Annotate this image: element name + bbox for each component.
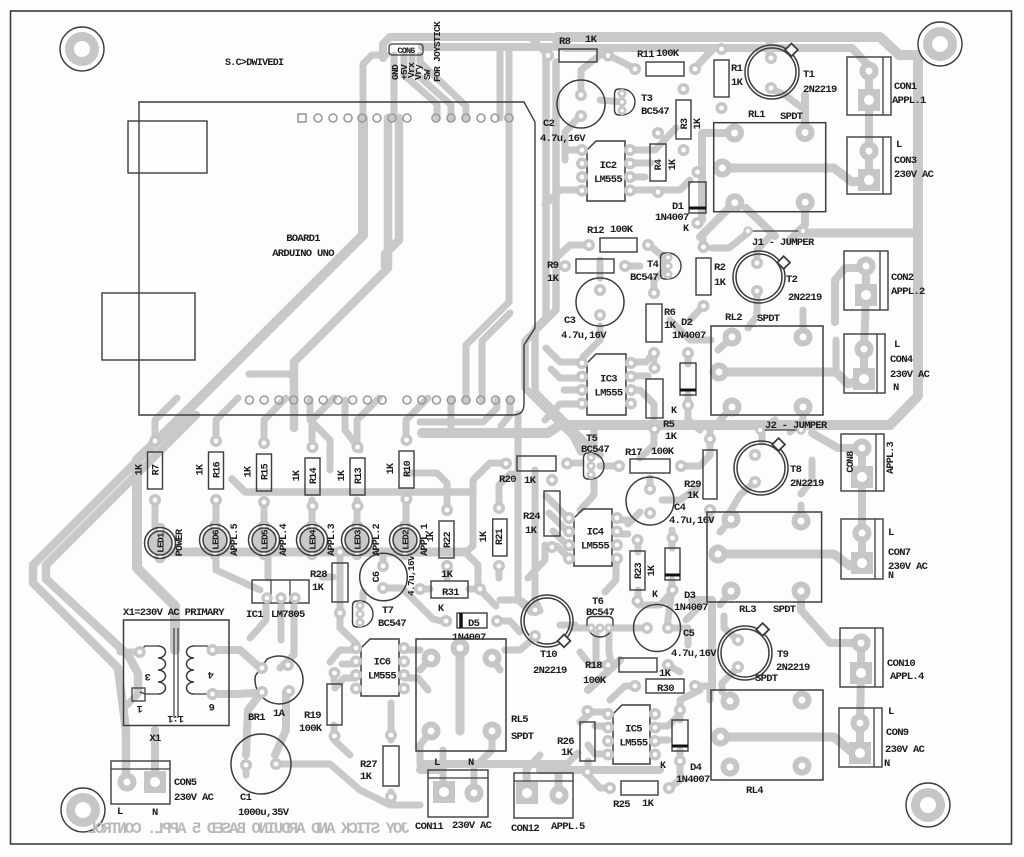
resistor R24 xyxy=(523,476,560,551)
capacitor C4 xyxy=(626,477,715,527)
wire xyxy=(730,482,755,512)
wire xyxy=(702,133,734,220)
transistor T5 xyxy=(581,433,609,479)
svg-text:LM555: LM555 xyxy=(594,174,622,186)
svg-text:1K: 1K xyxy=(668,159,679,170)
svg-text:R11: R11 xyxy=(637,49,654,61)
wire xyxy=(667,589,672,627)
wire xyxy=(700,203,734,237)
svg-text:R1: R1 xyxy=(731,63,743,75)
svg-text:1K: 1K xyxy=(524,475,537,487)
svg-text:C1: C1 xyxy=(240,792,252,804)
svg-text:R30: R30 xyxy=(657,683,674,695)
svg-text:APPL.3: APPL.3 xyxy=(327,523,338,556)
wire xyxy=(616,531,628,538)
wire xyxy=(388,703,395,740)
wire xyxy=(497,47,504,118)
wire xyxy=(500,600,535,610)
svg-text:BR1: BR1 xyxy=(248,712,265,724)
svg-text:APPL.2: APPL.2 xyxy=(372,523,383,556)
svg-text:CON8: CON8 xyxy=(846,451,857,473)
resistor R26 xyxy=(557,707,595,776)
wire xyxy=(858,477,866,533)
svg-text:T1: T1 xyxy=(803,69,815,81)
wire xyxy=(588,761,611,788)
svg-text:C5: C5 xyxy=(683,628,695,640)
svg-text:K: K xyxy=(683,224,689,235)
svg-text:1K: 1K xyxy=(561,747,574,759)
svg-text:R23: R23 xyxy=(634,562,645,579)
svg-text:BOARD1: BOARD1 xyxy=(286,233,320,245)
capacitor C3 xyxy=(561,278,624,342)
svg-text:230V AC: 230V AC xyxy=(894,169,935,181)
relay RL1 xyxy=(714,109,834,212)
svg-text:1K: 1K xyxy=(196,464,207,475)
svg-text:R22: R22 xyxy=(443,531,454,548)
bridge rectifier BR1 xyxy=(248,656,303,724)
wire xyxy=(278,599,285,640)
wire xyxy=(246,693,261,755)
regulator IC1 LM7805 xyxy=(246,580,309,621)
svg-text:4.7u,16V: 4.7u,16V xyxy=(561,330,607,342)
svg-text:CON11: CON11 xyxy=(415,821,443,833)
svg-text:2N2219: 2N2219 xyxy=(776,662,810,674)
LED LED1 xyxy=(145,525,187,562)
resistor R13 xyxy=(337,443,365,510)
svg-text:230V AC: 230V AC xyxy=(888,561,929,573)
svg-text:SPDT: SPDT xyxy=(780,111,803,123)
wire xyxy=(345,400,360,450)
wire xyxy=(556,263,565,270)
svg-text:IC4: IC4 xyxy=(587,527,604,539)
svg-text:IC3: IC3 xyxy=(600,374,617,386)
svg-text:N: N xyxy=(152,807,158,819)
wire xyxy=(383,37,869,71)
transistor T4 xyxy=(630,253,681,284)
svg-text:RL3: RL3 xyxy=(739,604,756,616)
wire xyxy=(403,500,410,527)
svg-text:L: L xyxy=(117,806,123,818)
wire xyxy=(160,548,465,557)
wire xyxy=(651,353,658,360)
wire xyxy=(312,398,334,441)
svg-text:4.7u,16V: 4.7u,16V xyxy=(669,515,715,527)
wire xyxy=(490,460,507,467)
svg-text:R24: R24 xyxy=(523,511,540,523)
wire xyxy=(524,772,531,793)
wire xyxy=(46,415,196,692)
svg-text:1K: 1K xyxy=(337,470,348,481)
svg-text:IC6: IC6 xyxy=(374,657,391,669)
wire xyxy=(363,55,386,118)
wire xyxy=(505,637,535,650)
svg-text:1K: 1K xyxy=(659,668,672,680)
resistor R14 xyxy=(292,443,320,510)
wire xyxy=(833,340,840,372)
wire xyxy=(385,118,399,266)
diode D5 xyxy=(438,604,501,644)
svg-text:APPL.1: APPL.1 xyxy=(892,95,926,107)
wire xyxy=(593,634,600,662)
svg-text:LM555: LM555 xyxy=(594,388,622,400)
wire xyxy=(555,770,562,795)
wire xyxy=(681,424,710,466)
wire xyxy=(380,552,387,566)
wire xyxy=(331,676,338,683)
LED LED3 xyxy=(342,522,384,559)
svg-text:CON7: CON7 xyxy=(888,547,911,559)
svg-text:T2: T2 xyxy=(786,274,798,286)
svg-text:C2: C2 xyxy=(543,118,555,130)
svg-text:L: L xyxy=(434,757,440,769)
wire xyxy=(668,628,688,645)
op-amp IC2 LM555 xyxy=(578,141,634,201)
svg-text:230V AC: 230V AC xyxy=(890,369,931,381)
wire xyxy=(801,460,812,494)
wire xyxy=(649,245,665,266)
svg-text:LED2: LED2 xyxy=(401,529,412,550)
wire xyxy=(801,95,809,133)
svg-text:JOY STICK AND ARDUINO BASED 5: JOY STICK AND ARDUINO BASED 5 APPL. CONT… xyxy=(88,820,410,838)
svg-text:ARDUINO UNO: ARDUINO UNO xyxy=(272,248,334,260)
resistor R28 xyxy=(310,548,348,617)
resistor R11 xyxy=(631,48,699,76)
svg-text:R27: R27 xyxy=(360,759,377,771)
svg-text:1K: 1K xyxy=(687,490,700,502)
wire xyxy=(528,545,545,578)
wire xyxy=(616,517,630,524)
wire xyxy=(801,591,861,643)
wire xyxy=(243,765,250,775)
diode D3 xyxy=(652,534,708,614)
wire xyxy=(357,398,379,441)
wire xyxy=(496,566,503,578)
wire xyxy=(583,326,600,357)
wire xyxy=(216,398,238,441)
wire xyxy=(525,62,581,452)
wire xyxy=(530,37,548,55)
wire xyxy=(629,174,645,181)
svg-text:100K: 100K xyxy=(656,48,680,60)
wire xyxy=(685,354,692,364)
svg-text:R2: R2 xyxy=(714,262,726,274)
wire xyxy=(580,652,610,665)
wire xyxy=(560,622,575,629)
wire xyxy=(669,580,676,592)
svg-text:1K: 1K xyxy=(135,464,146,475)
wire xyxy=(309,500,316,527)
wire xyxy=(654,270,665,294)
svg-text:J2 - JUMPER: J2 - JUMPER xyxy=(765,420,828,432)
resistor R6 xyxy=(646,289,677,357)
wire xyxy=(611,625,647,632)
resistor R9 xyxy=(547,259,629,285)
wire xyxy=(518,414,531,612)
svg-text:1: 1 xyxy=(137,702,143,714)
wire xyxy=(420,766,440,774)
svg-text:LED4: LED4 xyxy=(308,529,319,550)
connector CON11 xyxy=(415,757,493,833)
wire xyxy=(406,398,428,441)
wire xyxy=(559,753,578,793)
svg-text:BC547: BC547 xyxy=(586,607,614,619)
wire xyxy=(690,306,703,320)
resistor R21 xyxy=(479,504,507,570)
wire xyxy=(535,470,540,611)
svg-text:1K: 1K xyxy=(525,525,538,537)
wire xyxy=(724,616,738,640)
resistor R27 xyxy=(360,731,399,801)
wire xyxy=(722,168,869,182)
wire xyxy=(580,480,594,510)
wire xyxy=(565,115,581,160)
wire xyxy=(448,400,455,430)
svg-text:LED5: LED5 xyxy=(260,529,271,550)
svg-text:R19: R19 xyxy=(304,710,321,722)
wire xyxy=(275,692,286,755)
wire xyxy=(553,531,570,548)
svg-text:1K: 1K xyxy=(244,466,255,477)
resistor R20 xyxy=(499,456,571,487)
resistor R16 xyxy=(196,437,224,504)
capacitor C2 xyxy=(540,80,605,145)
svg-text:R8: R8 xyxy=(559,36,571,48)
transistor T3 xyxy=(615,89,670,118)
wire xyxy=(212,693,256,694)
wire xyxy=(334,725,350,755)
wire xyxy=(790,407,803,432)
wire xyxy=(565,147,583,154)
wire xyxy=(216,552,260,590)
svg-text:IC5: IC5 xyxy=(625,724,642,736)
resistor R29 xyxy=(684,435,717,514)
wire xyxy=(422,43,565,51)
svg-text:1K: 1K xyxy=(693,118,704,129)
svg-text:1:1: 1:1 xyxy=(167,712,184,723)
wire xyxy=(420,400,497,422)
wire xyxy=(265,552,272,578)
wire xyxy=(688,394,700,430)
svg-text:L: L xyxy=(888,527,894,539)
svg-text:1K: 1K xyxy=(585,34,598,46)
wire xyxy=(662,488,697,500)
svg-text:2N2219: 2N2219 xyxy=(788,292,822,304)
svg-text:LM7805: LM7805 xyxy=(271,609,305,621)
wire xyxy=(340,613,357,644)
wire xyxy=(628,373,648,380)
svg-text:POWER: POWER xyxy=(175,529,186,556)
svg-text:D3: D3 xyxy=(684,590,696,602)
wire xyxy=(656,737,668,744)
wire xyxy=(712,232,749,248)
wire xyxy=(625,263,640,270)
svg-text:CON10: CON10 xyxy=(887,658,915,670)
svg-text:CON4: CON4 xyxy=(890,354,913,366)
wire xyxy=(800,310,807,337)
wire xyxy=(591,430,598,453)
svg-text:R9: R9 xyxy=(547,260,559,272)
svg-text:K: K xyxy=(438,604,444,615)
relay RL5 xyxy=(416,639,534,751)
svg-text:1K: 1K xyxy=(441,569,454,581)
resistor R22 xyxy=(425,506,454,570)
svg-text:R31: R31 xyxy=(442,587,459,599)
wire xyxy=(499,474,518,508)
wire xyxy=(718,372,864,384)
resistor R5 xyxy=(646,364,678,443)
wire xyxy=(600,463,619,470)
wire xyxy=(638,590,672,605)
wire xyxy=(120,649,139,656)
LED LED4 xyxy=(297,522,339,559)
wire xyxy=(669,530,676,548)
wire xyxy=(492,658,500,670)
wire xyxy=(151,730,159,777)
svg-text:N: N xyxy=(888,571,894,582)
svg-text:4.7u,16V: 4.7u,16V xyxy=(671,648,717,660)
svg-text:APPL.1: APPL.1 xyxy=(420,523,431,556)
transistor T1 xyxy=(745,44,837,99)
wire xyxy=(546,348,581,362)
wire xyxy=(545,190,583,205)
wire xyxy=(567,460,581,467)
svg-text:2N2219: 2N2219 xyxy=(803,84,837,96)
svg-text:100K: 100K xyxy=(583,675,607,687)
svg-text:1K: 1K xyxy=(547,273,560,285)
svg-text:L: L xyxy=(896,139,902,151)
wire xyxy=(546,496,570,520)
transistor T9 xyxy=(718,623,810,685)
wire xyxy=(834,737,858,753)
svg-text:D2: D2 xyxy=(681,317,693,329)
wire xyxy=(275,761,330,768)
wire xyxy=(669,750,680,788)
svg-text:T4: T4 xyxy=(647,259,659,271)
svg-text:R13: R13 xyxy=(354,467,365,484)
mounting hole bottom-right xyxy=(906,783,950,827)
wire xyxy=(391,55,398,118)
wire xyxy=(250,599,266,638)
wire xyxy=(535,55,600,455)
wire xyxy=(720,591,731,605)
wire xyxy=(597,260,604,278)
wire xyxy=(572,625,591,632)
svg-text:4.7u,16V: 4.7u,16V xyxy=(540,133,586,145)
capacitor C1 xyxy=(231,734,291,819)
svg-text:RL5: RL5 xyxy=(511,714,528,726)
svg-text:BC547: BC547 xyxy=(630,272,658,284)
svg-text:R10: R10 xyxy=(403,460,414,477)
svg-text:N: N xyxy=(468,757,474,769)
wire xyxy=(480,731,492,762)
wire xyxy=(629,160,651,167)
connector CON9 xyxy=(839,706,926,770)
svg-text:4.7u,16V: 4.7u,16V xyxy=(406,555,417,596)
connector CON10 xyxy=(840,628,924,687)
svg-text:BC547: BC547 xyxy=(378,618,406,630)
wire xyxy=(264,398,286,441)
svg-text:T3: T3 xyxy=(641,93,653,105)
svg-text:T8: T8 xyxy=(790,464,802,476)
wire xyxy=(232,479,473,492)
wire xyxy=(865,100,873,151)
connector CON3 xyxy=(847,137,935,194)
svg-text:230V AC: 230V AC xyxy=(174,792,215,804)
wire xyxy=(466,463,506,552)
wire xyxy=(482,313,510,400)
svg-text:C3: C3 xyxy=(564,315,576,327)
transistor T7 xyxy=(353,601,407,630)
resistor R10 xyxy=(386,436,414,503)
wire xyxy=(762,420,775,442)
wire xyxy=(545,404,581,420)
svg-text:C6: C6 xyxy=(372,571,383,582)
wire xyxy=(342,661,355,668)
op-amp IC3 LM555 xyxy=(578,354,635,415)
resistor R12 xyxy=(585,224,652,252)
svg-text:CON1: CON1 xyxy=(894,81,917,93)
resistor R25 xyxy=(606,781,673,811)
svg-text:100K: 100K xyxy=(299,723,323,735)
svg-text:SPDT: SPDT xyxy=(755,673,778,685)
wire xyxy=(33,415,183,776)
wire xyxy=(692,596,712,604)
arduino bottom pin header xyxy=(245,396,514,404)
svg-text:X1: X1 xyxy=(149,733,161,745)
op-amp IC4 LM555 xyxy=(565,509,621,566)
svg-text:1N4007: 1N4007 xyxy=(672,330,706,342)
svg-text:1000u,35V: 1000u,35V xyxy=(238,807,290,819)
wire xyxy=(628,390,654,418)
wire xyxy=(310,400,330,470)
wire xyxy=(610,686,637,700)
wire xyxy=(213,500,220,527)
wire xyxy=(609,633,611,662)
connector CON4 xyxy=(844,334,931,394)
svg-text:100K: 100K xyxy=(651,446,675,458)
wire xyxy=(212,650,258,666)
svg-text:1K: 1K xyxy=(665,431,678,443)
svg-text:D4: D4 xyxy=(690,762,702,774)
svg-text:R4: R4 xyxy=(654,159,665,170)
wire xyxy=(722,667,738,692)
wire xyxy=(391,792,420,805)
svg-text:1K: 1K xyxy=(360,771,373,783)
svg-text:1N4007: 1N4007 xyxy=(674,602,708,614)
svg-text:LED1: LED1 xyxy=(156,532,167,553)
jumper J1 xyxy=(745,228,816,250)
wire xyxy=(280,599,294,668)
wire xyxy=(540,766,575,774)
svg-text:2N2219: 2N2219 xyxy=(533,665,567,677)
connector CON5 xyxy=(111,761,215,819)
wire xyxy=(466,47,509,400)
capacitor C5 xyxy=(634,605,718,661)
wire xyxy=(581,55,600,95)
wire xyxy=(580,712,608,722)
svg-text:1K: 1K xyxy=(642,798,655,810)
wire xyxy=(440,750,447,792)
wire xyxy=(595,723,608,730)
wire xyxy=(360,592,367,600)
wire xyxy=(557,546,570,559)
resistor R30 xyxy=(631,679,699,695)
transistor T6 xyxy=(586,596,614,637)
resistor R7 xyxy=(135,437,163,504)
resistor R2 xyxy=(696,243,727,310)
resistor R17 xyxy=(615,446,685,473)
svg-text:K: K xyxy=(652,590,658,601)
